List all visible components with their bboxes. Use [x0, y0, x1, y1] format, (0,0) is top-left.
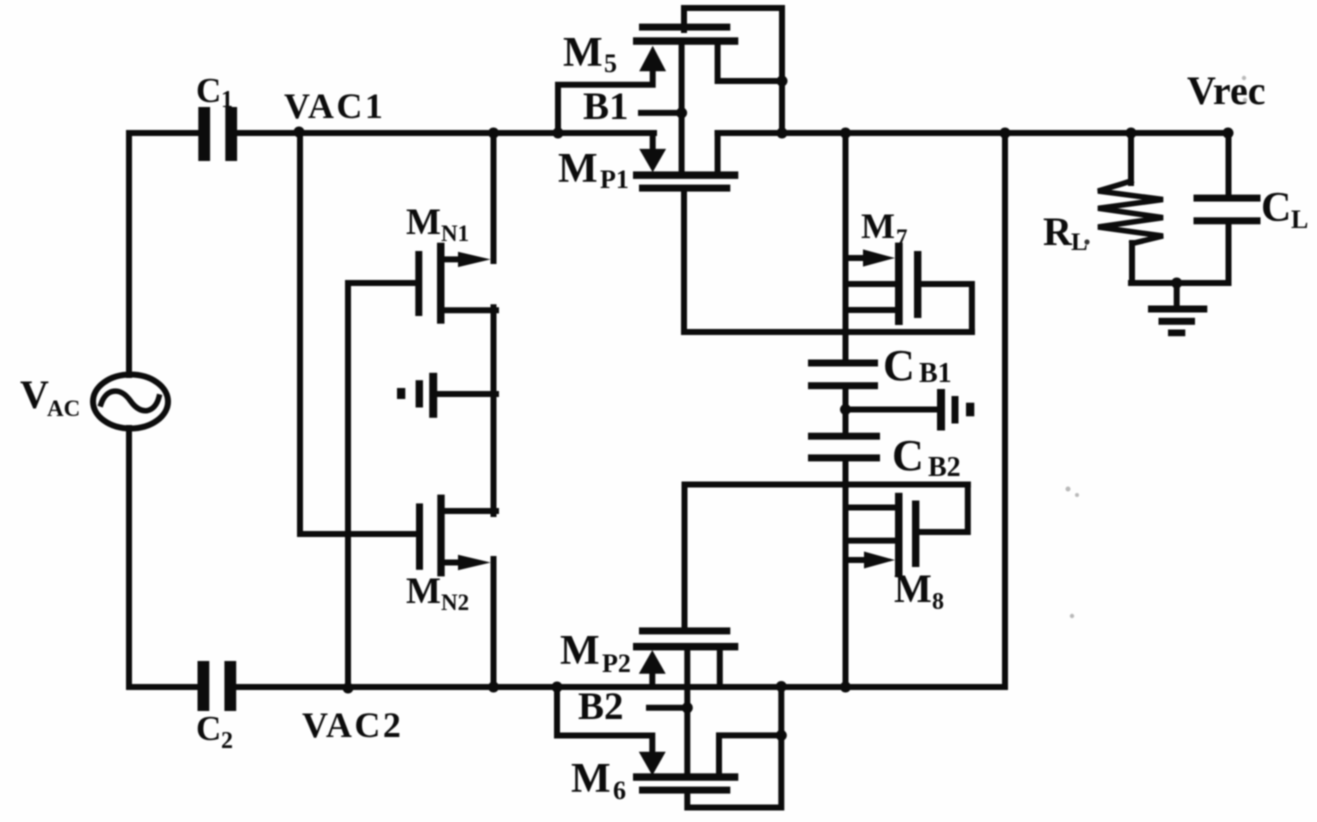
label M5	[563, 30, 617, 78]
transistor MN2	[416, 495, 491, 577]
svg-text:C: C	[196, 709, 221, 748]
voltage source VAC	[93, 375, 168, 429]
wire: M8 bulk lead	[847, 538, 895, 544]
wire: MP1 left lead from VAC1 wire	[650, 133, 656, 150]
node M6 drain lead	[776, 730, 787, 741]
node M7 gate return / rail	[841, 328, 850, 337]
bulk contact symbol (left)	[397, 373, 437, 418]
wire: MN1 drain lead	[445, 256, 464, 262]
transistor MP2	[633, 627, 738, 673]
svg-text:M: M	[406, 571, 441, 612]
wire: M6 gate loop	[687, 687, 781, 808]
svg-text:6: 6	[613, 776, 626, 805]
svg-text:P2: P2	[602, 649, 631, 678]
wire: output top wire from MP1 to Vrec	[718, 130, 1229, 136]
wire: rail from CB2 down to VAC2 wire	[843, 461, 849, 687]
label MP1	[558, 146, 629, 194]
wire: MP2 right lead down to VAC2 wire	[717, 650, 723, 687]
svg-text:P1: P1	[600, 165, 629, 194]
wire: B1 lead	[641, 110, 682, 116]
wire: MP2 gate line up and right to M8 gate return	[685, 485, 968, 629]
svg-text:2: 2	[221, 728, 233, 754]
wire: M7 drain lead	[847, 307, 895, 313]
label M8	[894, 566, 944, 615]
transistor M7	[863, 243, 921, 325]
wire: MN1 source down to MN2 drain	[491, 307, 497, 514]
wire: rail between CB1 and CB2	[843, 389, 849, 433]
label CB2	[892, 431, 961, 483]
node rail / output wire	[840, 128, 851, 139]
svg-text:7: 7	[896, 225, 908, 250]
svg-text:5: 5	[604, 49, 617, 78]
wire: M7 gate return	[921, 284, 972, 332]
label CB1	[883, 341, 952, 390]
svg-text:V: V	[20, 372, 49, 417]
wire: M6 drain lead	[719, 735, 781, 773]
svg-text:C: C	[196, 71, 221, 110]
label MN1	[406, 202, 469, 246]
svg-text:M: M	[563, 30, 603, 76]
node M6 staircase / VAC2	[552, 682, 563, 693]
capacitor C1	[198, 107, 237, 161]
node ground / load wire	[1171, 278, 1182, 289]
wire: load bottom wire	[1131, 280, 1229, 286]
node M8 gate return / rail	[841, 480, 850, 489]
svg-text:C: C	[1261, 185, 1291, 231]
svg-text:M: M	[560, 628, 600, 674]
svg-text:B2: B2	[578, 685, 624, 728]
wire: riser from VAC1 down to MN2 gate	[300, 133, 416, 534]
svg-text:N1: N1	[441, 221, 469, 246]
wire: rail from top wire down to CB1	[843, 133, 849, 362]
wire: bulk line B2 between MP2 and M6	[684, 647, 690, 778]
wire: bulk line B1 between M5 and MP1	[679, 41, 685, 175]
svg-text:M: M	[406, 202, 441, 243]
transistor M6	[633, 752, 738, 794]
wire: M5 source arrow stem and staircase to VAC1 wire	[558, 68, 653, 133]
node MN2 vertical / VAC2	[488, 682, 499, 693]
wire: VAC source bottom to bottom-left corner, to C2 left plate	[129, 428, 198, 687]
svg-text:B1: B1	[583, 85, 629, 128]
wire: MN2 source lead	[445, 560, 463, 566]
node M5 drain corner	[777, 76, 788, 87]
wire: M8 drain lead	[847, 505, 895, 511]
node B2	[682, 702, 693, 713]
transistor M5 gate loop	[684, 8, 782, 133]
wire: MP1 right lead up to output wire	[715, 133, 721, 171]
bulk contact symbol (right)	[846, 407, 938, 413]
node M6 drain / VAC2 wire	[776, 681, 787, 692]
wire: MP2 left arrow stem from VAC2 wire	[649, 672, 655, 687]
label M6	[571, 756, 626, 805]
label VAC	[20, 372, 80, 421]
node B1	[676, 107, 687, 118]
svg-text:VAC2: VAC2	[302, 705, 403, 745]
label C1	[196, 71, 233, 113]
wire: M5 right lead	[718, 45, 782, 81]
node VAC1	[294, 127, 305, 138]
label M7	[861, 206, 908, 250]
capacitor CB1	[808, 360, 878, 390]
node at MN1 vertical / VAC1	[488, 128, 499, 139]
transistor M8	[864, 493, 919, 576]
svg-text:C: C	[883, 341, 915, 390]
transistor MN1	[415, 243, 490, 324]
node M5 staircase / VAC1	[553, 128, 564, 139]
label MN2	[406, 571, 469, 615]
svg-text:8: 8	[932, 589, 944, 615]
wire: MN2 drain lead	[445, 508, 496, 514]
wire: M8 source lead	[847, 557, 866, 563]
svg-text:N2: N2	[441, 590, 469, 615]
label C2	[196, 709, 233, 754]
label CL	[1261, 185, 1308, 234]
wire: right rail connecting top wire and VAC2 wire	[1002, 133, 1008, 687]
wire: B2 lead	[649, 705, 687, 711]
svg-text:M: M	[861, 206, 895, 246]
capacitor CB2	[808, 433, 880, 462]
svg-text:AC: AC	[47, 396, 80, 421]
wire: M7 source lead	[847, 255, 866, 261]
wire: M7 bulk lead	[847, 281, 895, 287]
label RL	[1043, 209, 1090, 256]
wire: MN1 source lead	[445, 307, 497, 313]
svg-text:B1: B1	[919, 358, 952, 389]
node right rail / output wire	[1000, 128, 1011, 139]
svg-text:M: M	[558, 146, 598, 192]
node VAC2	[343, 683, 354, 694]
svg-text:L: L	[1291, 205, 1308, 234]
svg-text:B2: B2	[928, 452, 961, 483]
node CL / output wire	[1223, 128, 1234, 139]
wire: MP1 gate line down and right to M7 gate return	[684, 192, 972, 332]
svg-text:R: R	[1043, 209, 1073, 254]
wire: riser from VAC2 up to MN1 gate	[348, 283, 416, 687]
wire: VAC1 top wire from C1 to MP1 source lead	[237, 130, 654, 136]
capacitor C2	[198, 661, 237, 711]
node RL / output wire	[1126, 128, 1137, 139]
ground	[1174, 283, 1180, 306]
wire: vertical VAC1 to MN1 drain	[491, 133, 497, 261]
capacitor CL	[1226, 133, 1232, 195]
svg-text:M: M	[571, 756, 611, 802]
transistor MP1	[633, 149, 738, 192]
svg-text:Vrec: Vrec	[1187, 68, 1265, 113]
faint artifact specks	[1066, 76, 1248, 618]
svg-text:VAC1: VAC1	[284, 86, 385, 126]
wire: M6 staircase from VAC2 wire to source arrow	[557, 687, 652, 753]
transistor M5	[633, 24, 738, 72]
wire: MN2 source down to VAC2 wire	[491, 559, 497, 687]
svg-text:M: M	[894, 566, 932, 611]
wire: VAC2 bottom wire from C2 to right rail	[236, 684, 1005, 690]
wire: M8 gate return	[919, 485, 967, 533]
wire: top-left from C1 left plate to left corner, down to VAC source	[129, 133, 199, 375]
node bulk tap CB	[840, 404, 851, 415]
svg-text:1: 1	[221, 87, 233, 113]
wire: bulk contact to vertical line	[437, 391, 496, 397]
node MP1 drain / output wire	[777, 128, 788, 139]
node rail / VAC2 wire	[840, 682, 851, 693]
svg-text:C: C	[892, 431, 924, 480]
label MP2	[560, 628, 631, 678]
resistor RL	[1128, 133, 1134, 183]
